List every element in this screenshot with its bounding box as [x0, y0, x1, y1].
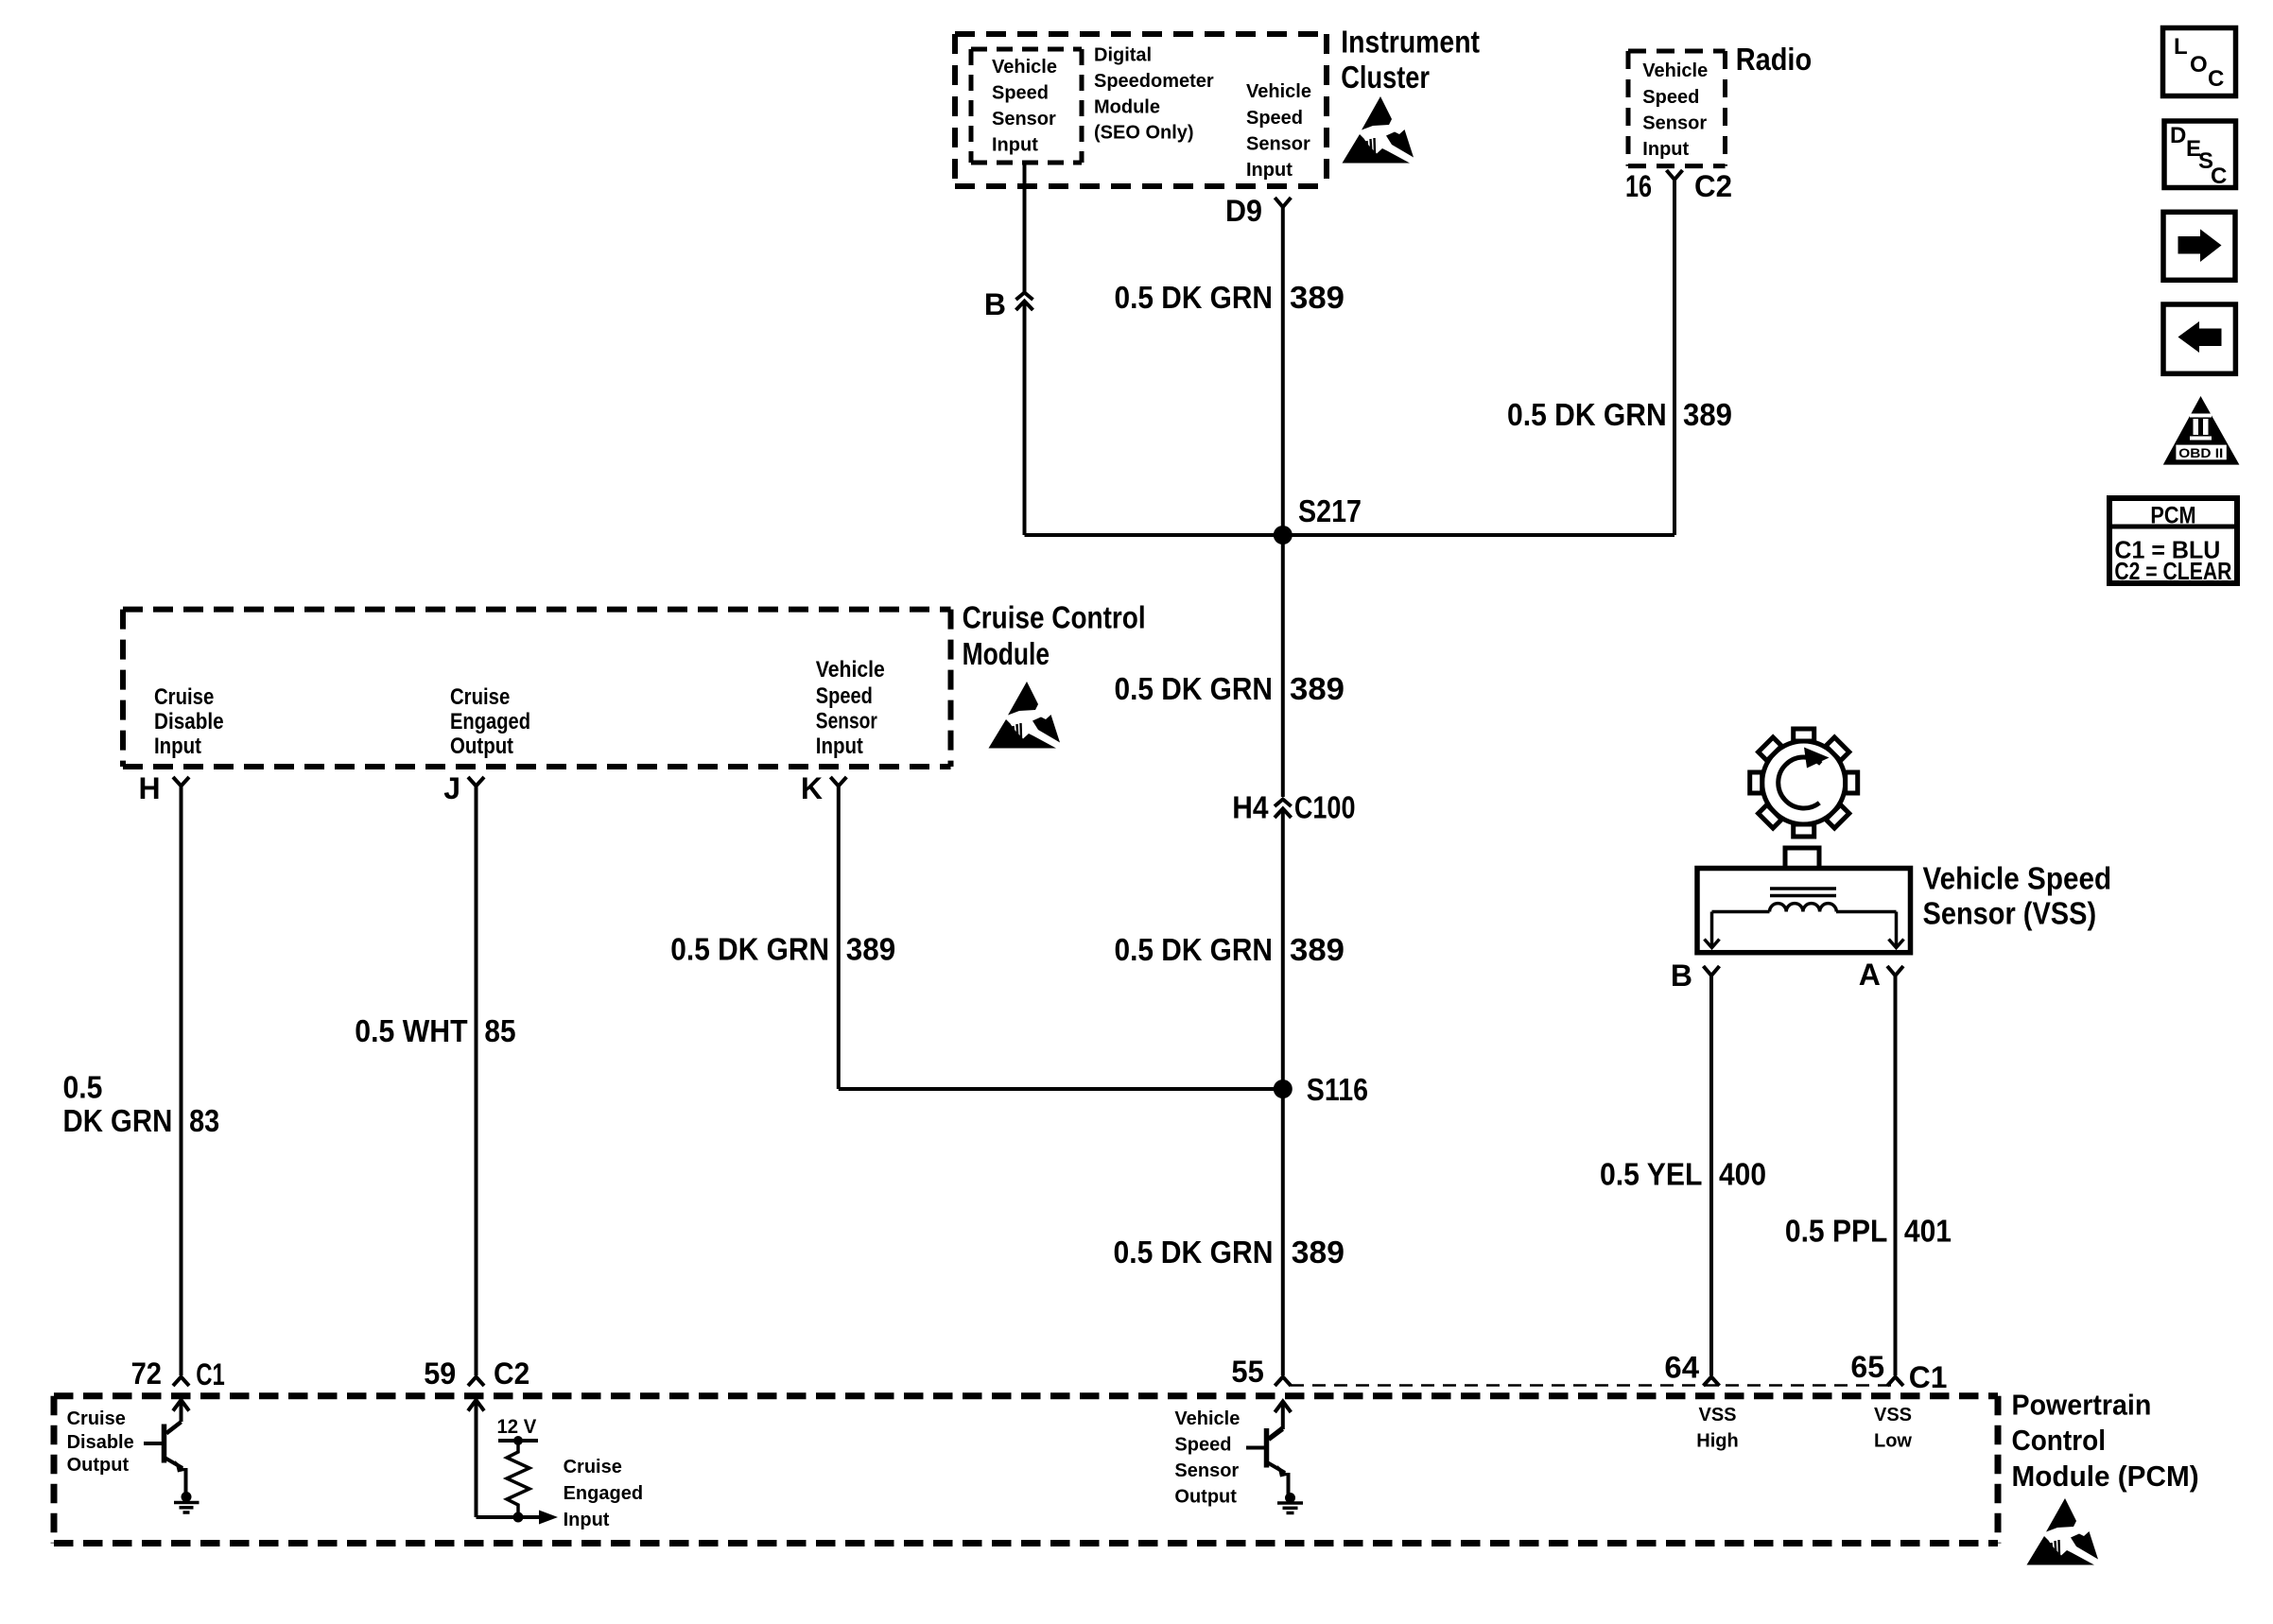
icon: back arrow navigation box: [2163, 304, 2235, 373]
wire label: 0.5 DK GRN 389 (cruise VSS input branch): [670, 931, 895, 966]
svg-text:L: L: [2174, 34, 2188, 60]
connector symbol at pin B (in-line connector): [1016, 293, 1033, 311]
wire: DK GRN 389 horizontal segment through splice S217: [1025, 533, 1675, 537]
internal arrow up to PCM pin 59: [468, 1400, 518, 1518]
svg-text:0.5 DK GRN: 0.5 DK GRN: [1115, 280, 1274, 315]
junction dot at resistor bottom: [513, 1512, 524, 1523]
icon: LOC navigation box: [2163, 28, 2236, 96]
wire label: 0.5 WHT 85: [355, 1013, 515, 1048]
svg-text:D: D: [2170, 123, 2186, 148]
connector C100 (in-line connector symbol): [1275, 800, 1292, 819]
svg-text:0.5 WHT: 0.5 WHT: [355, 1013, 467, 1048]
transistor Q2 vehicle speed sensor output (NPN): [1246, 1427, 1289, 1495]
svg-text:85: 85: [484, 1013, 515, 1048]
wire: YEL 400 from VSS pin B down to PCM pin 64: [1709, 976, 1713, 1375]
wire: PPL 401 from VSS pin A down to PCM pin 65: [1894, 976, 1898, 1375]
svg-text:Speed: Speed: [1642, 87, 1699, 108]
label: Cruise Disable Output (PCM): [67, 1408, 134, 1476]
svg-text:Sensor (VSS): Sensor (VSS): [1923, 896, 2097, 931]
svg-text:C1: C1: [1909, 1360, 1948, 1394]
label: VSS Low (PCM): [1874, 1405, 1912, 1452]
pin connector Y at instrument cluster pin D9: [1275, 198, 1291, 207]
svg-text:389: 389: [1292, 1235, 1345, 1270]
module box: Cruise Control Module (dashed): [123, 610, 951, 767]
label: Cruise Engaged Input (PCM): [564, 1457, 643, 1530]
svg-text:83: 83: [189, 1103, 219, 1138]
label: Vehicle Speed Sensor (VSS): [1923, 861, 2112, 931]
label: Vehicle Speed Sensor Input (radio): [1642, 60, 1708, 160]
label: Vehicle Speed Sensor Output (PCM): [1174, 1408, 1240, 1508]
internal arrow up to PCM pin 55: [1269, 1401, 1291, 1440]
pin connector Y at VSS pin B: [1704, 966, 1720, 976]
wire: DK GRN 389 from pin B down to splice S217: [1023, 302, 1027, 536]
svg-text:Digital: Digital: [1094, 45, 1152, 66]
svg-text:OBD II: OBD II: [2178, 445, 2223, 460]
pin connector at PCM pin 65 (inverted Y): [1887, 1377, 1903, 1387]
svg-text:55: 55: [1231, 1355, 1263, 1389]
svg-text:Speed: Speed: [992, 82, 1049, 103]
svg-text:59: 59: [424, 1356, 456, 1391]
svg-text:Input: Input: [1642, 139, 1689, 160]
svg-text:Disable: Disable: [67, 1432, 134, 1453]
svg-text:389: 389: [1290, 932, 1345, 967]
svg-text:Powertrain: Powertrain: [2012, 1388, 2152, 1421]
label: Vehicle Speed Sensor Input (instrument cluster right): [1246, 81, 1311, 181]
svg-text:401: 401: [1904, 1214, 1952, 1249]
svg-text:Sensor: Sensor: [816, 709, 877, 734]
wire: WHT 85 from cruise pin J down to PCM pin 59: [475, 786, 478, 1376]
svg-text:Engaged: Engaged: [450, 709, 530, 734]
svg-text:389: 389: [846, 931, 895, 966]
wire label: 0.5 DK GRN 389 (radio branch): [1507, 397, 1732, 432]
wire: DK GRN 389 from cruise pin K down then right to splice S116: [839, 786, 1283, 1090]
svg-text:Input: Input: [992, 135, 1038, 156]
pin connector at PCM pin 72 (inverted Y): [173, 1377, 189, 1387]
PCM connector C1 thin dashed boundary line: [1291, 1384, 1899, 1387]
vehicle speed sensor VSS body box: [1697, 848, 1911, 953]
svg-text:Cruise: Cruise: [450, 684, 510, 710]
internal arrow right: cruise engaged input: [518, 1511, 558, 1525]
svg-text:0.5 DK GRN: 0.5 DK GRN: [1114, 1235, 1274, 1270]
svg-text:389: 389: [1290, 280, 1345, 315]
svg-text:Vehicle Speed: Vehicle Speed: [1923, 861, 2112, 896]
VSS internal pickup coil and core: [1705, 889, 1904, 948]
svg-text:Sensor: Sensor: [1246, 134, 1310, 155]
pin connector Y at cruise module pin J: [468, 777, 484, 786]
label: Instrument Cluster module title: [1341, 25, 1480, 95]
resistor R1 cruise engaged pull-up: [507, 1441, 529, 1512]
label: Cruise Disable Input (cruise control module): [154, 684, 224, 759]
module box: Instrument Cluster (dashed): [955, 34, 1327, 186]
svg-text:16: 16: [1625, 169, 1652, 203]
svg-text:72: 72: [131, 1356, 162, 1391]
svg-text:Sensor: Sensor: [1174, 1460, 1239, 1481]
reluctor gear symbol (vehicle speed sensor): [1750, 729, 1858, 837]
svg-text:Instrument: Instrument: [1341, 25, 1480, 60]
label: Cruise Engaged Output (cruise control module): [450, 684, 530, 759]
svg-text:Cruise Control: Cruise Control: [963, 600, 1146, 635]
svg-text:0.5 DK GRN: 0.5 DK GRN: [1115, 671, 1274, 706]
svg-text:K: K: [801, 771, 823, 805]
svg-text:S116: S116: [1307, 1072, 1368, 1107]
icon: OBD II warning triangle: [2163, 396, 2240, 465]
svg-text:Low: Low: [1874, 1431, 1912, 1452]
svg-text:Vehicle: Vehicle: [1174, 1408, 1240, 1429]
wire label: 0.5 DK GRN 389 (pin B branch): [1115, 280, 1345, 315]
svg-text:Vehicle: Vehicle: [992, 57, 1057, 78]
ground symbol (Q2 emitter): [1277, 1493, 1303, 1513]
label: Digital Speedometer Module (SEO Only): [1094, 45, 1214, 144]
svg-text:J: J: [443, 771, 460, 805]
svg-text:Cruise: Cruise: [154, 684, 214, 710]
svg-text:Input: Input: [816, 734, 863, 759]
icon: PCM connector color legend box: [2109, 498, 2237, 585]
svg-text:Module: Module: [1094, 96, 1160, 117]
svg-text:Input: Input: [564, 1510, 610, 1530]
svg-text:Sensor: Sensor: [992, 109, 1056, 130]
pin connector Y at cruise module pin H: [173, 777, 189, 786]
svg-text:H4: H4: [1232, 790, 1269, 825]
splice S217 junction dot: [1274, 526, 1293, 544]
svg-text:C2: C2: [494, 1356, 529, 1391]
svg-text:Engaged: Engaged: [564, 1483, 643, 1504]
wire label: 0.5 DK GRN 389 (between S116 and PCM pin 55): [1114, 1235, 1345, 1270]
svg-text:C1: C1: [196, 1357, 225, 1391]
wire label: 0.5 DK GRN 389 (between S217 and C100): [1115, 671, 1345, 706]
pin connector Y at radio pin 16: [1667, 170, 1683, 180]
pin connector at PCM pin 64 (inverted Y): [1704, 1377, 1720, 1387]
label: VSS High (PCM): [1696, 1405, 1738, 1452]
svg-text:Disable: Disable: [154, 709, 224, 734]
svg-text:0.5 DK GRN: 0.5 DK GRN: [1115, 932, 1274, 967]
svg-text:0.5 DK GRN: 0.5 DK GRN: [1507, 397, 1667, 432]
wire: DK GRN 389 from pin D9 down to connector C100: [1281, 207, 1285, 797]
12V supply rail bar with junction dot: [498, 1436, 538, 1445]
svg-text:C2: C2: [1694, 169, 1732, 203]
wire label: 0.5 YEL 400: [1600, 1156, 1766, 1191]
wire: DK GRN 389 from instrument cluster sub-box pin B (upper segment): [1023, 163, 1027, 292]
wire label: 0.5 PPL 401: [1785, 1214, 1952, 1249]
svg-text:C: C: [2208, 66, 2224, 92]
svg-text:VSS: VSS: [1874, 1405, 1912, 1425]
svg-text:64: 64: [1664, 1351, 1699, 1385]
module box: Powertrain Control Module PCM (dashed): [54, 1396, 1998, 1544]
label: Powertrain Control Module (PCM) title: [2012, 1388, 2199, 1493]
svg-text:Cruise: Cruise: [564, 1457, 622, 1477]
pin connector Y at VSS pin A: [1887, 966, 1903, 976]
wire label: 0.5 DK GRN 389 (between C100 and S116): [1115, 932, 1345, 967]
svg-text:12 V: 12 V: [497, 1416, 537, 1438]
svg-text:0.5 DK GRN: 0.5 DK GRN: [670, 931, 829, 966]
internal arrow up to PCM pin 72: [167, 1400, 190, 1433]
splice S116 junction dot: [1274, 1080, 1293, 1098]
svg-text:H: H: [138, 771, 160, 805]
svg-text:Vehicle: Vehicle: [1642, 60, 1708, 81]
svg-text:Speed: Speed: [1246, 108, 1303, 129]
svg-text:Module: Module: [963, 636, 1050, 671]
svg-text:Cruise: Cruise: [67, 1408, 126, 1429]
svg-text:VSS: VSS: [1698, 1405, 1736, 1425]
wire: DK GRN 83 from cruise pin H down to PCM pin 72: [180, 786, 183, 1376]
pin connector at PCM pin 59 (inverted Y): [468, 1377, 484, 1387]
ground symbol (Q1 emitter): [174, 1492, 200, 1512]
svg-text:0.5 YEL: 0.5 YEL: [1600, 1156, 1703, 1191]
svg-text:(SEO Only): (SEO Only): [1094, 123, 1194, 144]
label: Vehicle Speed Sensor Input (cruise control module): [816, 657, 885, 759]
svg-text:389: 389: [1290, 671, 1345, 706]
svg-text:B: B: [984, 287, 1006, 321]
svg-text:Output: Output: [67, 1455, 130, 1476]
label: Vehicle Speed Sensor Input (instrument cluster sub-box): [992, 57, 1057, 156]
svg-text:Cluster: Cluster: [1341, 60, 1430, 95]
wire: DK GRN 389 from radio pin 16 down to splice S217: [1673, 180, 1676, 535]
svg-text:Speedometer: Speedometer: [1094, 71, 1214, 92]
ESD sensitivity symbol (PCM): [2027, 1498, 2099, 1565]
svg-text:0.5: 0.5: [63, 1070, 103, 1105]
svg-text:D9: D9: [1225, 194, 1262, 228]
module box: Radio (dashed): [1628, 51, 1726, 166]
svg-text:High: High: [1696, 1431, 1738, 1452]
svg-text:O: O: [2190, 52, 2208, 78]
wire label: 0.5 DK GRN 83 (cruise disable wire): [63, 1070, 220, 1138]
svg-text:Speed: Speed: [1174, 1435, 1231, 1456]
wire: DK GRN 389 from C100 down to splice S116: [1281, 809, 1285, 1376]
svg-text:389: 389: [1683, 397, 1732, 432]
transistor Q1 cruise disable output (NPN): [144, 1423, 186, 1495]
svg-text:C: C: [2211, 164, 2227, 189]
svg-text:DK GRN: DK GRN: [63, 1103, 173, 1138]
svg-text:0.5 PPL: 0.5 PPL: [1785, 1214, 1888, 1249]
svg-text:Radio: Radio: [1736, 42, 1813, 77]
svg-text:Input: Input: [154, 734, 201, 759]
svg-text:Module (PCM): Module (PCM): [2012, 1460, 2199, 1493]
ESD sensitivity symbol (Cruise Control Module): [989, 682, 1061, 749]
label: Cruise Control Module title: [963, 600, 1146, 671]
svg-text:C100: C100: [1294, 790, 1356, 825]
pin connector Y at cruise module pin K: [830, 777, 846, 786]
svg-text:Vehicle: Vehicle: [1246, 81, 1311, 102]
module box: Vehicle Speed Sensor Input sub-box inside Instrument Cluster (dashed): [971, 49, 1082, 163]
svg-text:S217: S217: [1298, 493, 1362, 528]
svg-text:A: A: [1859, 958, 1881, 992]
svg-text:Sensor: Sensor: [1642, 112, 1707, 133]
svg-text:400: 400: [1719, 1156, 1766, 1191]
svg-text:B: B: [1671, 959, 1692, 993]
svg-text:Input: Input: [1246, 160, 1293, 181]
svg-text:Output: Output: [450, 734, 513, 759]
svg-text:Speed: Speed: [816, 683, 873, 709]
svg-text:Vehicle: Vehicle: [816, 657, 885, 682]
svg-text:C2 = CLEAR: C2 = CLEAR: [2114, 557, 2231, 585]
ESD sensitivity symbol (Instrument Cluster): [1343, 96, 1414, 164]
pin connector at PCM pin 55 (inverted Y): [1275, 1377, 1291, 1387]
svg-text:Control: Control: [2012, 1424, 2107, 1457]
icon: forward arrow navigation box: [2163, 212, 2235, 280]
svg-text:65: 65: [1850, 1350, 1884, 1384]
svg-text:Output: Output: [1174, 1487, 1237, 1508]
icon: DESC navigation box: [2164, 121, 2236, 189]
svg-text:PCM: PCM: [2150, 503, 2195, 529]
